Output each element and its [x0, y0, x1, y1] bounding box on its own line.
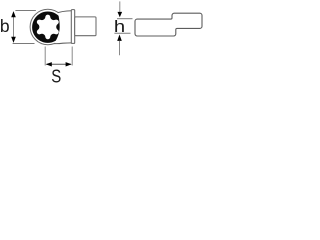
b arrowhead up	[11, 11, 16, 17]
h bottom extension line	[114, 32, 130, 34]
S left extension line	[44, 47, 46, 66]
S arrowhead left	[46, 62, 52, 66]
b dimension bottom extension line	[13, 43, 35, 45]
ring black annulus with torx hole	[32, 12, 63, 43]
tab (9x12 plug)	[75, 17, 96, 36]
h top extension line	[117, 18, 133, 20]
h down arrowhead	[118, 12, 123, 17]
h down arrow shaft	[119, 1, 121, 12]
b dimension top extension line	[15, 10, 36, 12]
neck bottom edge	[54, 42, 71, 45]
neck fill	[54, 11, 71, 44]
svg-text:S: S	[51, 67, 61, 85]
ring outer outline	[30, 9, 65, 44]
h up arrow shaft	[119, 41, 121, 55]
S arrow shaft	[47, 63, 71, 65]
svg-text:b: b	[0, 16, 10, 36]
svg-text:h: h	[114, 18, 125, 36]
neck top edge	[58, 11, 71, 13]
S arrowhead right	[66, 62, 72, 66]
S right extension line	[71, 47, 73, 66]
h up arrowhead	[117, 35, 122, 41]
b dimension arrow shaft	[13, 14, 15, 40]
flange	[71, 10, 74, 44]
side view union outline	[135, 13, 202, 36]
b arrowhead down	[11, 37, 16, 43]
